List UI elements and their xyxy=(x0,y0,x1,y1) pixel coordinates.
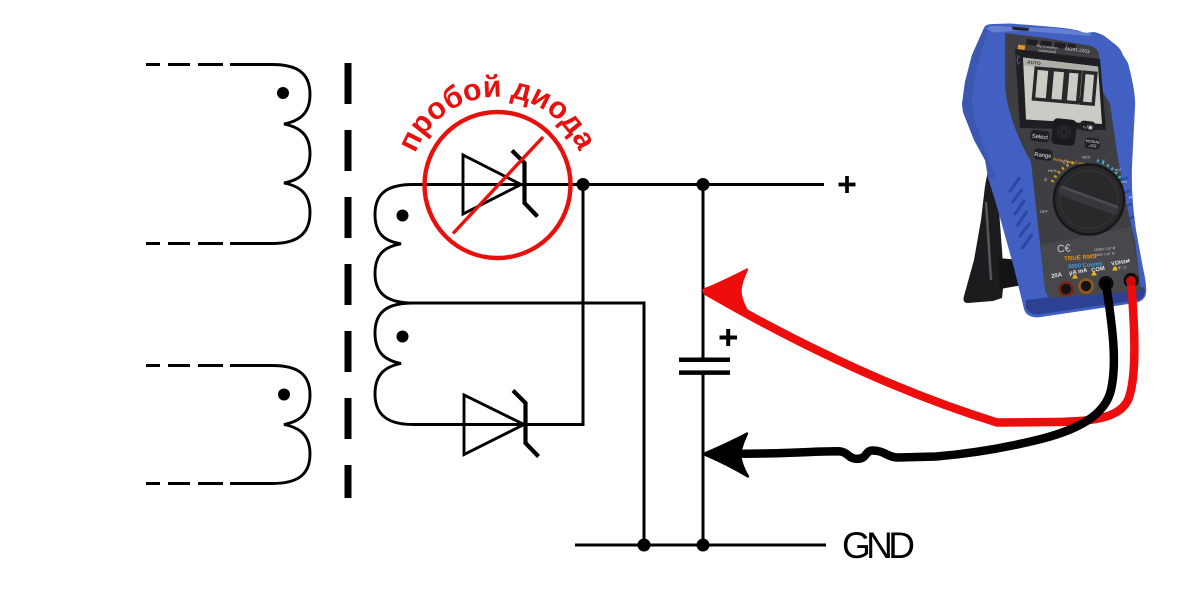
primary winding top L1a xyxy=(230,65,310,244)
black probe arrowhead xyxy=(704,434,749,477)
LCD screen xyxy=(1023,58,1102,125)
polarity dot secondary top xyxy=(397,210,409,222)
wire capacitor branch upper xyxy=(702,185,705,359)
secondary winding top L2a xyxy=(375,185,460,304)
wire bottom rail (GND) xyxy=(575,544,826,547)
svg-text:℃°F: ℃°F xyxy=(1061,160,1070,165)
polarity dot primary top xyxy=(277,87,289,99)
kickstand highlight xyxy=(986,202,991,280)
backlight button xyxy=(1080,120,1096,132)
LCD shade top xyxy=(1023,58,1099,75)
top notch (LED window) xyxy=(1012,27,1029,32)
multimeter body (blue holster) xyxy=(962,24,1146,318)
svg-text:V: V xyxy=(1102,158,1105,163)
jack 20A xyxy=(1060,283,1073,296)
kickstand lower strut xyxy=(998,258,1023,289)
LCD digits 000.0 xyxy=(1033,68,1095,104)
output node + label xyxy=(839,176,856,193)
dial tick arc yellow xyxy=(1052,161,1077,182)
svg-text:Hz%: Hz% xyxy=(1048,168,1057,173)
red probe wire xyxy=(707,281,1134,423)
right grip ridges xyxy=(1118,178,1133,221)
hz duty button xyxy=(1084,137,1100,150)
wire center tap xyxy=(450,303,644,545)
red probe arrowhead xyxy=(704,270,749,313)
multimeter face panel xyxy=(1005,33,1141,298)
junction node top-left xyxy=(577,178,590,191)
svg-text:µA: µA xyxy=(1129,194,1134,199)
polarity dot primary bottom xyxy=(278,389,290,401)
dial tick arc cyan xyxy=(1097,161,1123,184)
select button xyxy=(1030,130,1050,143)
multimeter kickstand xyxy=(964,170,1005,303)
svg-text:⎇/Ω: ⎇/Ω xyxy=(1088,143,1097,149)
svg-text:NCV: NCV xyxy=(1082,155,1091,160)
junction node top-right xyxy=(697,178,710,191)
diode VD1 triangle (faulty) xyxy=(463,155,521,214)
diode VD2 cathode (zener bar) xyxy=(513,391,539,457)
red probe plug xyxy=(1126,276,1136,286)
warning triangle 2 xyxy=(1091,271,1097,276)
capacitor C1 top plate xyxy=(679,358,730,363)
dial labels xyxy=(1040,155,1134,215)
jack uAmA xyxy=(1080,280,1093,293)
primary winding bottom lower lead (dashed) xyxy=(146,482,232,485)
svg-text:Ω: Ω xyxy=(1124,179,1127,184)
fault slash (red) xyxy=(453,137,543,234)
primary winding top bottom lead (dashed) xyxy=(146,242,232,245)
capacitor C1 bottom plate xyxy=(679,370,730,375)
left grip ridges xyxy=(1010,179,1032,249)
fault circle (red) xyxy=(425,112,571,258)
secondary winding bottom L2b xyxy=(375,303,460,425)
warning triangle 3 xyxy=(1112,266,1118,271)
svg-text:C€: C€ xyxy=(1057,242,1071,255)
jack VOhm xyxy=(1124,273,1139,288)
primary winding bottom L1b xyxy=(230,366,310,484)
top vent slots xyxy=(1026,39,1076,50)
LCD bezel xyxy=(1015,49,1106,130)
diode VD1 cathode (zener bar) xyxy=(512,151,538,217)
jack COM xyxy=(1099,276,1114,291)
junction node bottom-right xyxy=(697,539,710,552)
wire capacitor branch lower xyxy=(702,375,705,546)
polarity dot secondary bottom xyxy=(397,331,409,343)
holster bottom shade xyxy=(1026,287,1145,314)
diode VD2 triangle xyxy=(464,395,524,455)
wire top rail (+) xyxy=(450,183,824,186)
black probe wire xyxy=(744,284,1114,459)
primary winding bottom lead (dashed) xyxy=(146,364,232,367)
speaker grille xyxy=(1051,118,1078,146)
svg-text:GND: GND xyxy=(842,525,915,566)
holster top highlight xyxy=(987,26,1091,36)
warning triangle 1 xyxy=(1072,274,1078,279)
capacitor polarity + xyxy=(720,329,738,346)
range button xyxy=(1033,148,1053,161)
primary winding top lead (dashed) xyxy=(146,63,232,66)
black probe plug xyxy=(1101,279,1111,289)
brand logo xyxy=(1018,45,1025,50)
wire bottom diode branch xyxy=(450,185,583,425)
svg-text:OFF: OFF xyxy=(1040,209,1049,214)
dial pointer xyxy=(1057,185,1120,216)
dial knob xyxy=(1054,165,1124,235)
junction node bottom-left xyxy=(638,539,651,552)
bluetooth icon xyxy=(1016,55,1020,64)
holster left edge shade xyxy=(962,28,996,178)
svg-text:mV: mV xyxy=(1115,167,1121,172)
transformer core xyxy=(345,63,352,498)
face lower area shade xyxy=(1041,227,1141,298)
svg-text:☼/▣: ☼/▣ xyxy=(1082,124,1094,131)
